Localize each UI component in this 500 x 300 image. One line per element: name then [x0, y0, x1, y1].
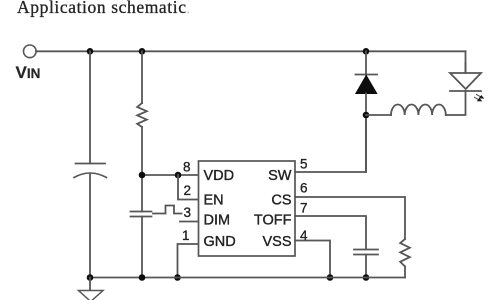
- svg-text:EN: EN: [204, 193, 224, 209]
- svg-text:TOFF: TOFF: [254, 213, 292, 229]
- svg-text:2: 2: [184, 183, 192, 198]
- wire: pin 4 VSS stub and drop: [295, 241, 330, 278]
- node: rail junction at x=142: [139, 48, 146, 55]
- node: junction at (178,175): [175, 172, 182, 179]
- wire: EN tie-down branch: [178, 175, 199, 200]
- capacitor C2: [131, 211, 152, 213]
- capacitor C1 (polarized, input): [76, 163, 106, 165]
- svg-text:3: 3: [184, 205, 192, 220]
- svg-text:8: 8: [183, 160, 191, 175]
- capacitor C3 on TOFF: [354, 249, 378, 251]
- svg-text:7: 7: [300, 201, 308, 216]
- resistor R1: [137, 103, 147, 127]
- wire: R1 bottom down to VDD node and capacitor C2: [141, 127, 143, 212]
- wire: pin 3 DIM stub: [180, 221, 199, 223]
- svg-text:6: 6: [300, 181, 308, 196]
- wire: junction to inductor: [366, 114, 391, 116]
- wire: pin 5 SW stub and rise: [295, 115, 366, 172]
- svg-text:CS: CS: [271, 193, 291, 209]
- wire: C3 bottom to rail: [365, 255, 367, 278]
- LED D2: [450, 73, 481, 89]
- svg-text:VIN: VIN: [16, 63, 41, 82]
- svg-text:GND: GND: [204, 234, 236, 250]
- ground symbol: [89, 278, 91, 291]
- wire: x=142 down to resistor R1: [141, 51, 143, 103]
- wire: C1 bottom to ground rail: [89, 175, 91, 278]
- IC U1 body (LED driver): [199, 161, 296, 256]
- svg-text:5: 5: [300, 157, 308, 172]
- svg-text:DIM: DIM: [204, 213, 231, 229]
- wire: top VIN rail: [36, 50, 465, 52]
- node: rail junction at diode x=366: [363, 48, 370, 55]
- node: rail junction at x=90: [87, 274, 94, 281]
- wire: x=90 down to capacitor C1: [89, 51, 91, 163]
- node: SW/diode/inductor junction: [363, 112, 370, 119]
- svg-text:VSS: VSS: [262, 234, 291, 250]
- wire: inductor to LED cathode leg: [446, 91, 466, 115]
- pulse waveform symbol on DIM: [153, 206, 182, 214]
- wire: VDD feed at y=175: [142, 174, 199, 176]
- wire: top-right corner down to LED: [465, 51, 467, 73]
- node: junction at (142,175): [139, 172, 146, 179]
- wire: R2 bottom to rail corner: [404, 267, 406, 278]
- input terminal circle: [24, 45, 37, 58]
- wire: pin 1 GND stub and drop: [178, 244, 199, 278]
- node: VSS junction on rail: [327, 274, 334, 281]
- svg-text:VDD: VDD: [204, 168, 235, 184]
- svg-text:4: 4: [300, 228, 308, 243]
- node: junction GND drop on rail: [174, 274, 181, 281]
- diode D1 freewheeling: [365, 51, 367, 75]
- node: C3 junction on rail: [363, 274, 370, 281]
- wire: pin 7 TOFF stub and drop: [295, 216, 366, 249]
- LED emission arrows: [475, 95, 485, 102]
- inductor L1: [391, 104, 446, 115]
- svg-text:SW: SW: [268, 168, 292, 184]
- node: rail junction at x=142: [139, 274, 146, 281]
- svg-text:1: 1: [182, 228, 190, 243]
- wire: pin 6 CS stub and drop: [295, 197, 405, 239]
- wire: bottom ground rail: [90, 277, 405, 279]
- node: rail junction at x=90: [87, 48, 94, 55]
- wire: C2 bottom to ground rail: [141, 217, 143, 278]
- resistor R2 on CS: [400, 239, 410, 267]
- svg-text:Application schematic.: Application schematic.: [17, 0, 190, 17]
